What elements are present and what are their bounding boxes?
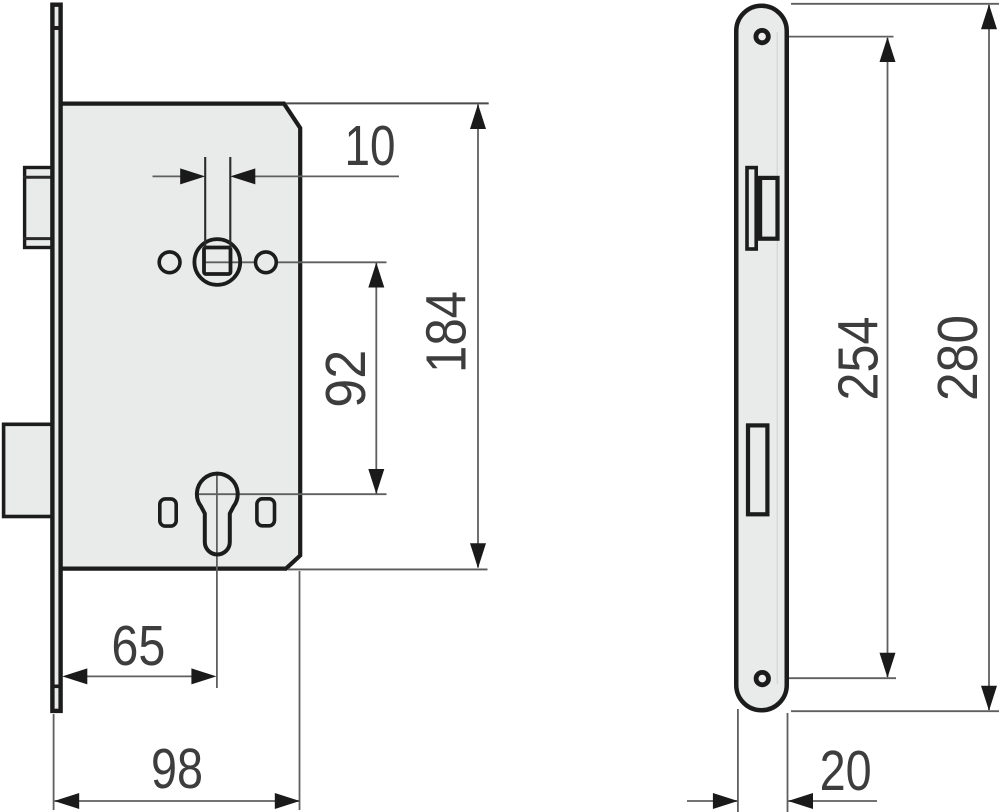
svg-text:20: 20 [820, 739, 872, 803]
svg-text:92: 92 [314, 350, 378, 408]
svg-text:184: 184 [415, 291, 479, 373]
svg-text:280: 280 [926, 315, 990, 401]
svg-text:254: 254 [827, 317, 891, 401]
svg-text:98: 98 [151, 737, 203, 801]
svg-text:65: 65 [111, 614, 165, 678]
svg-text:10: 10 [345, 114, 396, 178]
